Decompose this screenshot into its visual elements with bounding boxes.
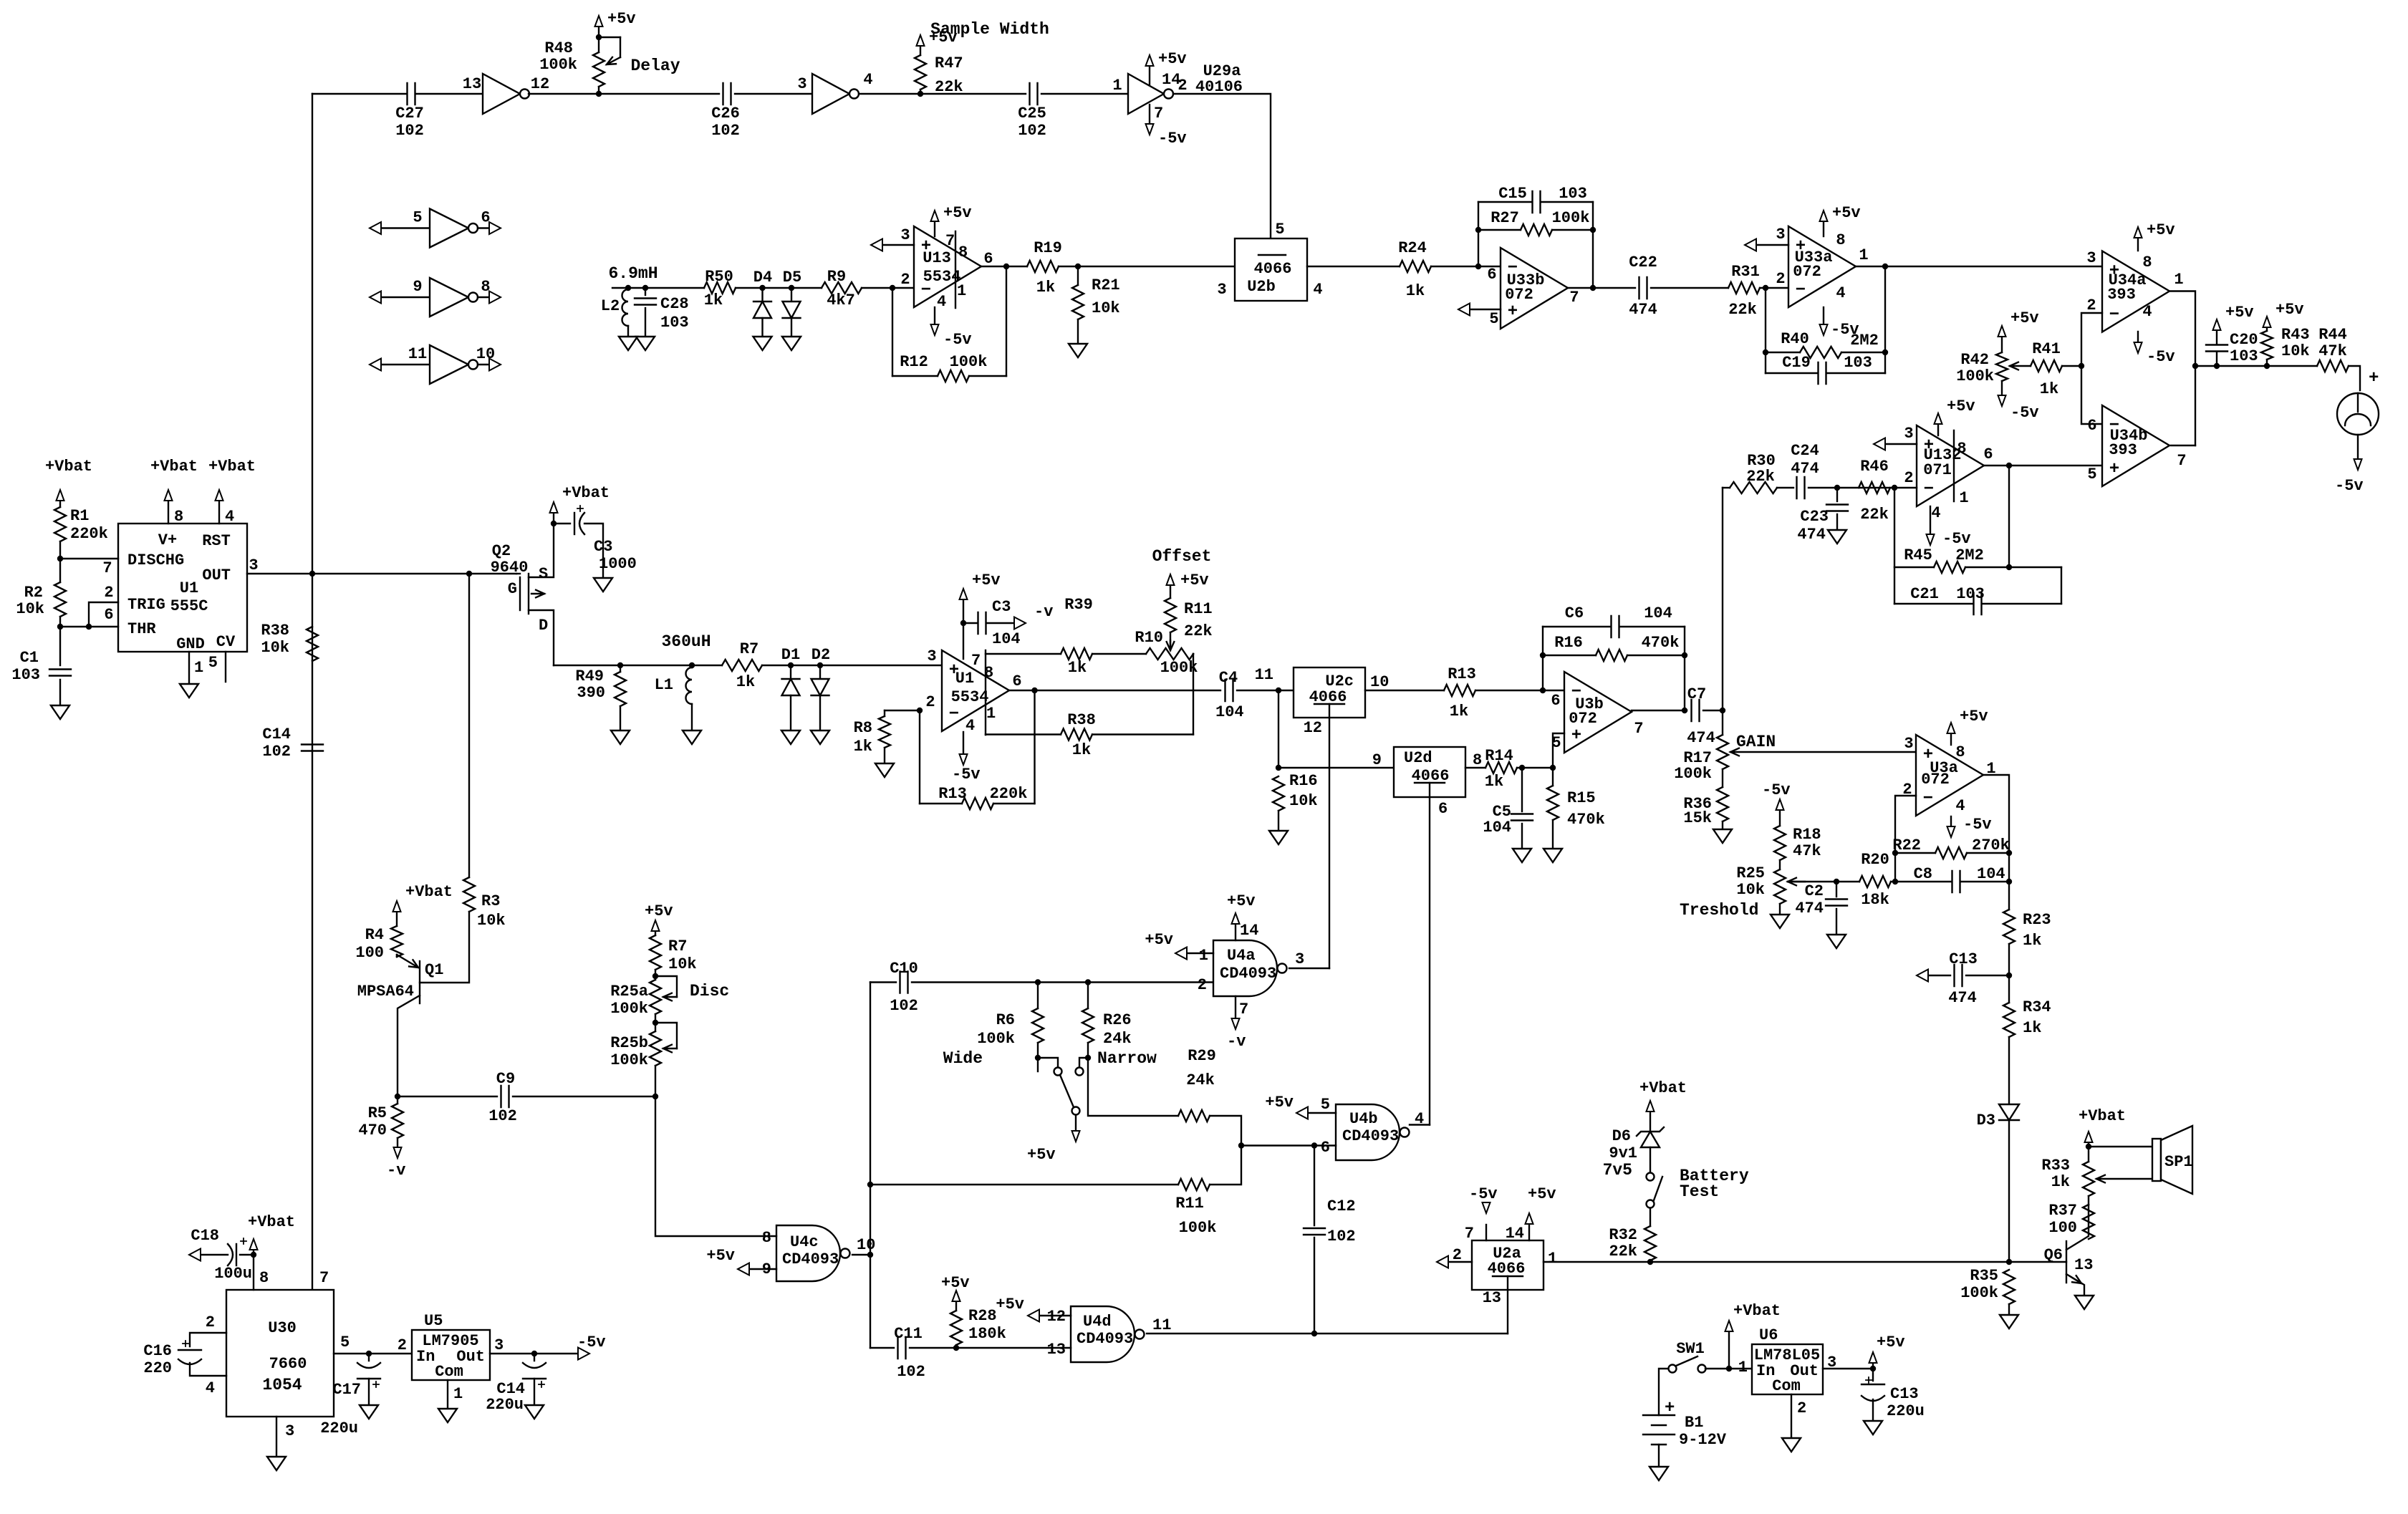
- nand U4c CD4093: [776, 1225, 840, 1281]
- svg-text:3: 3: [797, 75, 806, 93]
- resistor R41 1k: [2031, 360, 2062, 372]
- svg-text:−: −: [1923, 789, 1933, 809]
- svg-text:R16: R16: [1554, 634, 1583, 652]
- ground R16: [1269, 831, 1288, 844]
- svg-text:360uH: 360uH: [661, 632, 711, 651]
- ground C5: [1513, 849, 1531, 862]
- svg-text:14: 14: [1240, 922, 1258, 940]
- resistor R19 1k: [1027, 261, 1059, 272]
- ic U5 LM7905: [412, 1330, 490, 1380]
- svg-text:1k: 1k: [2023, 932, 2041, 950]
- power -5v U1 pin4: [963, 732, 964, 753]
- svg-text:7660: 7660: [269, 1355, 307, 1373]
- svg-text:10: 10: [1370, 673, 1389, 691]
- svg-text:10: 10: [476, 345, 495, 363]
- svg-text:C24: C24: [1791, 442, 1819, 460]
- resistor R8 1k to ground: [917, 708, 923, 713]
- svg-text:OUT: OUT: [202, 566, 231, 584]
- svg-text:+Vbat: +Vbat: [150, 458, 198, 476]
- svg-text:13: 13: [2074, 1256, 2093, 1274]
- pot R42 100k: [2001, 337, 2003, 352]
- svg-text:3: 3: [1295, 950, 1304, 968]
- svg-text:Q2: Q2: [492, 542, 511, 560]
- pin 5 U30 output: [334, 1353, 412, 1354]
- svg-text:9640: 9640: [491, 559, 529, 577]
- pin8 bar U132: [1953, 430, 1955, 501]
- wire U4a output: [1289, 968, 1329, 969]
- ground R36: [1713, 829, 1732, 843]
- svg-text:−: −: [949, 705, 959, 724]
- svg-text:C2: C2: [1805, 882, 1824, 900]
- svg-text:8: 8: [2142, 254, 2152, 271]
- svg-text:47k: 47k: [1793, 842, 1821, 860]
- svg-text:220: 220: [143, 1359, 172, 1377]
- svg-text:B1: B1: [1685, 1414, 1703, 1432]
- svg-text:2: 2: [398, 1336, 407, 1354]
- svg-text:5: 5: [2087, 466, 2096, 483]
- svg-text:R6: R6: [996, 1011, 1015, 1029]
- ic U6 LM78L05: [1752, 1344, 1823, 1394]
- wire U3b output: [1632, 710, 1687, 711]
- svg-text:8: 8: [762, 1229, 771, 1247]
- svg-text:R13: R13: [938, 785, 967, 803]
- svg-text:R21: R21: [1092, 276, 1120, 294]
- diode D2: [817, 662, 823, 668]
- svg-text:1: 1: [1959, 489, 1968, 507]
- svg-text:C23: C23: [1800, 508, 1829, 526]
- resistor R15 470k: [1552, 768, 1554, 786]
- svg-text:2: 2: [900, 271, 910, 289]
- svg-text:470: 470: [358, 1122, 387, 1139]
- svg-text:1: 1: [957, 282, 966, 300]
- power +Vbat Q2 source: [551, 521, 557, 526]
- capacitor C12 102: [1314, 1146, 1315, 1226]
- wire: [859, 93, 920, 95]
- svg-text:100k: 100k: [1179, 1219, 1217, 1237]
- svg-text:R45: R45: [1904, 546, 1932, 564]
- svg-text:103: 103: [660, 314, 689, 332]
- svg-text:2: 2: [1904, 469, 1913, 487]
- resistor R1 220k: [59, 501, 61, 507]
- resistor R30 22k: [1730, 482, 1777, 493]
- svg-text:-5v: -5v: [1762, 781, 1791, 799]
- svg-text:−: −: [1796, 281, 1806, 300]
- svg-text:R42: R42: [1960, 351, 1989, 369]
- svg-text:R34: R34: [2023, 998, 2051, 1016]
- svg-text:C17: C17: [332, 1381, 361, 1399]
- svg-text:470k: 470k: [1567, 811, 1605, 829]
- svg-text:220k: 220k: [70, 525, 108, 543]
- speaker SP1: [2152, 1139, 2161, 1181]
- ground C14: [525, 1405, 544, 1419]
- svg-text:9: 9: [413, 278, 422, 296]
- resistor R14 1k: [1465, 767, 1485, 768]
- wire U3a pin2 riser: [1895, 796, 1916, 882]
- svg-text:+5v: +5v: [941, 1274, 970, 1292]
- svg-text:C22: C22: [1629, 254, 1657, 271]
- svg-text:L2: L2: [601, 297, 620, 315]
- svg-text:L1: L1: [655, 676, 673, 694]
- svg-text:Narrow: Narrow: [1097, 1049, 1157, 1068]
- svg-text:100k: 100k: [1956, 367, 1994, 385]
- svg-text:3: 3: [1904, 735, 1913, 753]
- svg-text:R44: R44: [2318, 326, 2347, 344]
- svg-text:102: 102: [262, 743, 291, 761]
- svg-text:+5v: +5v: [1158, 50, 1187, 68]
- svg-text:100k: 100k: [610, 1051, 648, 1069]
- capacitor C22 474: [1639, 277, 1647, 299]
- svg-text:+Vbat: +Vbat: [248, 1213, 295, 1231]
- ground D1: [781, 731, 800, 744]
- svg-text:R12: R12: [900, 353, 928, 371]
- inverter U29 spare pins 5-6: [370, 222, 381, 234]
- svg-text:C18: C18: [191, 1227, 219, 1245]
- power -5v U34a: [2137, 332, 2139, 342]
- power +5v U34a: [2137, 238, 2139, 251]
- wire: [529, 93, 599, 95]
- capacitor C27: [408, 83, 415, 105]
- svg-text:22k: 22k: [1184, 622, 1213, 640]
- svg-text:D1: D1: [781, 646, 800, 664]
- svg-text:R47: R47: [935, 54, 963, 72]
- wire: [1651, 287, 1728, 289]
- svg-text:+5v: +5v: [607, 10, 636, 28]
- ic U1 555C box: [118, 524, 247, 652]
- svg-text:R14: R14: [1485, 747, 1513, 765]
- svg-text:SP1: SP1: [2164, 1153, 2193, 1171]
- power -5v U13: [934, 307, 935, 324]
- svg-text:R10: R10: [1135, 629, 1163, 647]
- svg-text:2: 2: [2086, 296, 2096, 314]
- svg-text:393: 393: [2109, 441, 2137, 459]
- svg-text:12: 12: [531, 75, 549, 93]
- svg-text:+Vbat: +Vbat: [1733, 1302, 1781, 1320]
- offset feedback rails R39 R10 R38: [986, 653, 1061, 655]
- svg-text:6: 6: [1983, 445, 1993, 463]
- capacitor C14 102 on bus: [302, 745, 323, 751]
- svg-text:+5v: +5v: [2010, 309, 2039, 327]
- wire to GAIN node: [1703, 710, 1723, 711]
- resistor R5 470: [397, 1096, 398, 1104]
- svg-text:THR: THR: [127, 620, 156, 638]
- svg-text:GND: GND: [176, 635, 205, 653]
- svg-text:+5v: +5v: [1180, 572, 1209, 589]
- net arrow U132 pin3: [1874, 438, 1885, 450]
- resistor R20 18k: [1788, 881, 1859, 882]
- wire 555 OUT vertical bus: [312, 94, 313, 1290]
- svg-text:6.9mH: 6.9mH: [608, 264, 658, 283]
- svg-text:2: 2: [206, 1313, 215, 1331]
- resistor R4 100: [396, 955, 398, 957]
- svg-text:100k: 100k: [1160, 659, 1198, 677]
- svg-text:C8: C8: [1914, 865, 1932, 883]
- svg-text:GAIN: GAIN: [1736, 733, 1776, 751]
- wire J1 vertical to R13 220k: [1034, 690, 1035, 804]
- svg-text:22k: 22k: [1609, 1243, 1637, 1260]
- svg-text:R16: R16: [1289, 772, 1318, 790]
- analog switch U2b 4066: [1235, 238, 1307, 301]
- analog switch U2a 4066: [1472, 1240, 1543, 1290]
- svg-text:1: 1: [986, 705, 996, 723]
- ground Q6 emitter: [2075, 1296, 2094, 1309]
- svg-text:R23: R23: [2023, 911, 2051, 929]
- svg-text:−: −: [2109, 306, 2119, 325]
- svg-text:4: 4: [937, 293, 946, 311]
- diode D3: [1999, 1104, 2019, 1120]
- svg-text:C25: C25: [1018, 105, 1046, 122]
- svg-text:220k: 220k: [990, 785, 1028, 803]
- svg-text:072: 072: [1569, 710, 1597, 728]
- wire to U6: [1729, 1368, 1752, 1369]
- svg-text:47k: 47k: [2318, 342, 2347, 360]
- net arrow U33a pin3: [1745, 239, 1756, 251]
- wire: [1041, 93, 1128, 95]
- svg-text:5: 5: [413, 209, 422, 227]
- svg-text:1: 1: [1199, 947, 1208, 965]
- svg-text:10k: 10k: [2281, 342, 2310, 360]
- pot R25b 100k: [652, 1020, 658, 1026]
- power +5v U4d pin12: [1028, 1310, 1039, 1322]
- svg-text:R49: R49: [575, 667, 604, 685]
- svg-text:5: 5: [1275, 221, 1284, 238]
- resistor R38 1k lower rail: [986, 733, 1061, 735]
- svg-text:R38: R38: [1067, 711, 1096, 729]
- svg-text:8: 8: [1957, 440, 1966, 458]
- svg-text:071: 071: [1923, 461, 1952, 479]
- svg-text:Com: Com: [1772, 1377, 1801, 1395]
- svg-text:7: 7: [1634, 720, 1643, 738]
- wire U2c pin12 to U4a output: [1329, 704, 1330, 968]
- svg-text:C13: C13: [1890, 1385, 1919, 1403]
- wire U1 output: [1009, 690, 1220, 691]
- svg-text:3: 3: [1217, 281, 1226, 299]
- svg-text:2: 2: [1776, 270, 1785, 288]
- wire: [736, 287, 822, 289]
- svg-text:MPSA64: MPSA64: [357, 983, 414, 1001]
- svg-text:100k: 100k: [977, 1030, 1015, 1048]
- svg-text:+: +: [2109, 460, 2119, 479]
- op-amp U1 5534: [942, 650, 1009, 731]
- power +5v U6 out: [1872, 1364, 1874, 1369]
- svg-text:1k: 1k: [1450, 703, 1468, 720]
- svg-text:C3: C3: [992, 598, 1011, 616]
- svg-text:11: 11: [1152, 1316, 1171, 1334]
- svg-text:-5v: -5v: [943, 331, 972, 349]
- svg-text:6: 6: [1438, 800, 1448, 818]
- svg-text:C28: C28: [660, 295, 689, 313]
- svg-text:U13: U13: [923, 249, 951, 267]
- svg-text:102: 102: [1018, 122, 1046, 140]
- capacitor C24 474: [1797, 477, 1805, 498]
- power +5v U3a: [1950, 734, 1952, 745]
- svg-text:24k: 24k: [1186, 1071, 1215, 1089]
- svg-text:R25b: R25b: [610, 1034, 648, 1052]
- capacitor C7 474: [1692, 700, 1700, 721]
- svg-text:474: 474: [1797, 526, 1826, 544]
- svg-text:100u: 100u: [214, 1265, 252, 1283]
- wire: [1475, 690, 1564, 691]
- svg-text:100k: 100k: [1552, 209, 1590, 227]
- svg-text:4066: 4066: [1254, 260, 1292, 278]
- resistor R7 1k: [722, 660, 762, 671]
- op-amp U34b 393: [2102, 405, 2169, 486]
- svg-text:390: 390: [577, 684, 605, 702]
- wire Q2 drain row: [554, 665, 722, 666]
- nand U4a CD4093: [1213, 940, 1277, 996]
- svg-text:U6: U6: [1759, 1326, 1778, 1344]
- power +5v U2a pin14: [1528, 1225, 1530, 1240]
- svg-text:5: 5: [208, 654, 218, 672]
- svg-text:-5v: -5v: [1158, 130, 1187, 148]
- svg-text:+5v: +5v: [943, 204, 972, 222]
- op-amp U3a 072: [1916, 735, 1983, 816]
- switch battery test: [1647, 1173, 1655, 1181]
- svg-text:U1: U1: [955, 670, 974, 688]
- svg-text:Treshold: Treshold: [1680, 901, 1758, 920]
- svg-text:R39: R39: [1064, 596, 1093, 614]
- svg-text:Disc: Disc: [690, 982, 729, 1001]
- net -5v output arrow: [578, 1348, 589, 1360]
- svg-text:12: 12: [1047, 1308, 1066, 1326]
- svg-text:3: 3: [249, 556, 258, 574]
- svg-text:6: 6: [104, 606, 113, 624]
- wire: [735, 93, 812, 95]
- resistor R21 10k: [1072, 285, 1084, 319]
- ground R15: [1543, 849, 1562, 862]
- capacitor C4 104: [1225, 680, 1233, 701]
- op-amp U34a 393: [2102, 251, 2169, 332]
- svg-text:R25a: R25a: [610, 983, 648, 1001]
- svg-text:7: 7: [319, 1269, 329, 1287]
- svg-text:555C: 555C: [170, 597, 208, 615]
- svg-text:1: 1: [1859, 246, 1868, 264]
- svg-text:U4b: U4b: [1349, 1110, 1378, 1128]
- capacitor C14 220u polarized: [523, 1363, 546, 1368]
- svg-text:102: 102: [488, 1107, 517, 1125]
- svg-text:6: 6: [1012, 672, 1021, 690]
- svg-text:2: 2: [1797, 1399, 1806, 1417]
- svg-text:22k: 22k: [1728, 301, 1757, 319]
- wire: [862, 287, 914, 289]
- svg-text:C4: C4: [1219, 669, 1238, 687]
- inverter U29f pins 13-12: [483, 74, 520, 114]
- svg-text:9v1: 9v1: [1609, 1144, 1637, 1162]
- svg-text:U30: U30: [268, 1319, 297, 1337]
- wire: [1059, 266, 1235, 267]
- capacitor C2 474: [1836, 882, 1837, 897]
- svg-text:100k: 100k: [950, 353, 988, 371]
- svg-text:5: 5: [340, 1334, 350, 1351]
- power -5v meter: [2357, 435, 2359, 458]
- svg-text:In: In: [416, 1348, 435, 1366]
- svg-text:R31: R31: [1731, 263, 1760, 281]
- svg-text:180k: 180k: [968, 1325, 1006, 1343]
- svg-text:103: 103: [1844, 354, 1872, 372]
- wire to speaker: [2089, 1146, 2153, 1147]
- op-amp U33b 072: [1501, 248, 1568, 329]
- svg-text:R35: R35: [1970, 1267, 1998, 1285]
- pin 6 THR wire: [60, 626, 118, 627]
- svg-text:10k: 10k: [1092, 299, 1120, 317]
- svg-text:D4: D4: [753, 269, 772, 286]
- resistor R50 1k: [704, 282, 736, 294]
- svg-text:15k: 15k: [1683, 809, 1712, 827]
- svg-text:+5v: +5v: [2275, 301, 2304, 319]
- svg-text:Wide: Wide: [943, 1049, 983, 1068]
- svg-text:10k: 10k: [261, 639, 289, 657]
- svg-text:6: 6: [983, 250, 993, 268]
- wire GAIN vertical: [1722, 488, 1723, 710]
- svg-text:R15: R15: [1567, 789, 1596, 807]
- power +5v U132: [1937, 425, 1939, 435]
- capacitor C18 100u polarized: [240, 1254, 254, 1255]
- svg-text:C20: C20: [2230, 331, 2258, 349]
- svg-text:8: 8: [958, 244, 968, 261]
- svg-text:-5v: -5v: [2335, 477, 2364, 495]
- ic U30 7660 box: [226, 1290, 334, 1417]
- svg-text:102: 102: [890, 997, 918, 1015]
- feedback R16 470k: [1542, 627, 1543, 690]
- svg-text:1: 1: [1548, 1250, 1557, 1268]
- svg-text:R3: R3: [481, 892, 500, 910]
- wire: [1237, 690, 1294, 691]
- wire U5 out: [490, 1353, 577, 1354]
- svg-text:TRIG: TRIG: [127, 596, 165, 614]
- svg-text:+Vbat: +Vbat: [2079, 1107, 2126, 1125]
- inverter U29a pins 1-2: [1128, 74, 1164, 114]
- resistor R26 24k: [1085, 979, 1091, 985]
- svg-text:+5v: +5v: [972, 572, 1001, 589]
- svg-text:3: 3: [494, 1336, 504, 1354]
- row R30 C24 R46: [1723, 487, 1730, 488]
- svg-text:10k: 10k: [1289, 792, 1318, 810]
- svg-text:R29: R29: [1188, 1047, 1216, 1065]
- svg-text:8: 8: [259, 1269, 269, 1287]
- capacitor C10 102: [870, 981, 896, 983]
- inverter U29 spare pins 9-8: [370, 291, 381, 304]
- pin 3 OUT wire: [247, 573, 516, 574]
- svg-text:DISCHG: DISCHG: [127, 551, 184, 569]
- pot R48 100k Delay: [598, 37, 599, 52]
- net arrow U13 pin3: [871, 239, 882, 251]
- svg-text:R46: R46: [1860, 458, 1889, 476]
- svg-text:470k: 470k: [1642, 634, 1680, 652]
- diode D4: [759, 285, 765, 291]
- wire U34a pin2 riser: [2081, 313, 2102, 366]
- svg-text:2: 2: [1198, 976, 1207, 994]
- svg-text:U4c: U4c: [790, 1233, 819, 1251]
- svg-text:D6: D6: [1612, 1127, 1631, 1145]
- wire U6 out: [1823, 1368, 1873, 1369]
- wire: [920, 93, 1026, 95]
- ground C3: [594, 578, 612, 592]
- junction Q1 collector R5 C9: [395, 1094, 400, 1099]
- pin 1 GND U1-555: [188, 652, 190, 684]
- svg-text:CD4093: CD4093: [782, 1250, 839, 1268]
- capacitor C25: [1030, 83, 1038, 105]
- svg-text:C11: C11: [894, 1325, 923, 1343]
- svg-text:7: 7: [1465, 1225, 1474, 1243]
- power +5v U4a pin1: [1175, 948, 1187, 960]
- wire U2a pin13: [1507, 1276, 1508, 1334]
- svg-text:1k: 1k: [2040, 380, 2058, 398]
- inverter U29 pins 3-4: [812, 74, 849, 114]
- svg-text:R43: R43: [2281, 326, 2310, 344]
- resistor R24 1k: [1400, 261, 1431, 272]
- svg-text:4066: 4066: [1488, 1260, 1526, 1278]
- power -5v U33a: [1823, 307, 1824, 324]
- pin8 bar U13: [955, 231, 956, 308]
